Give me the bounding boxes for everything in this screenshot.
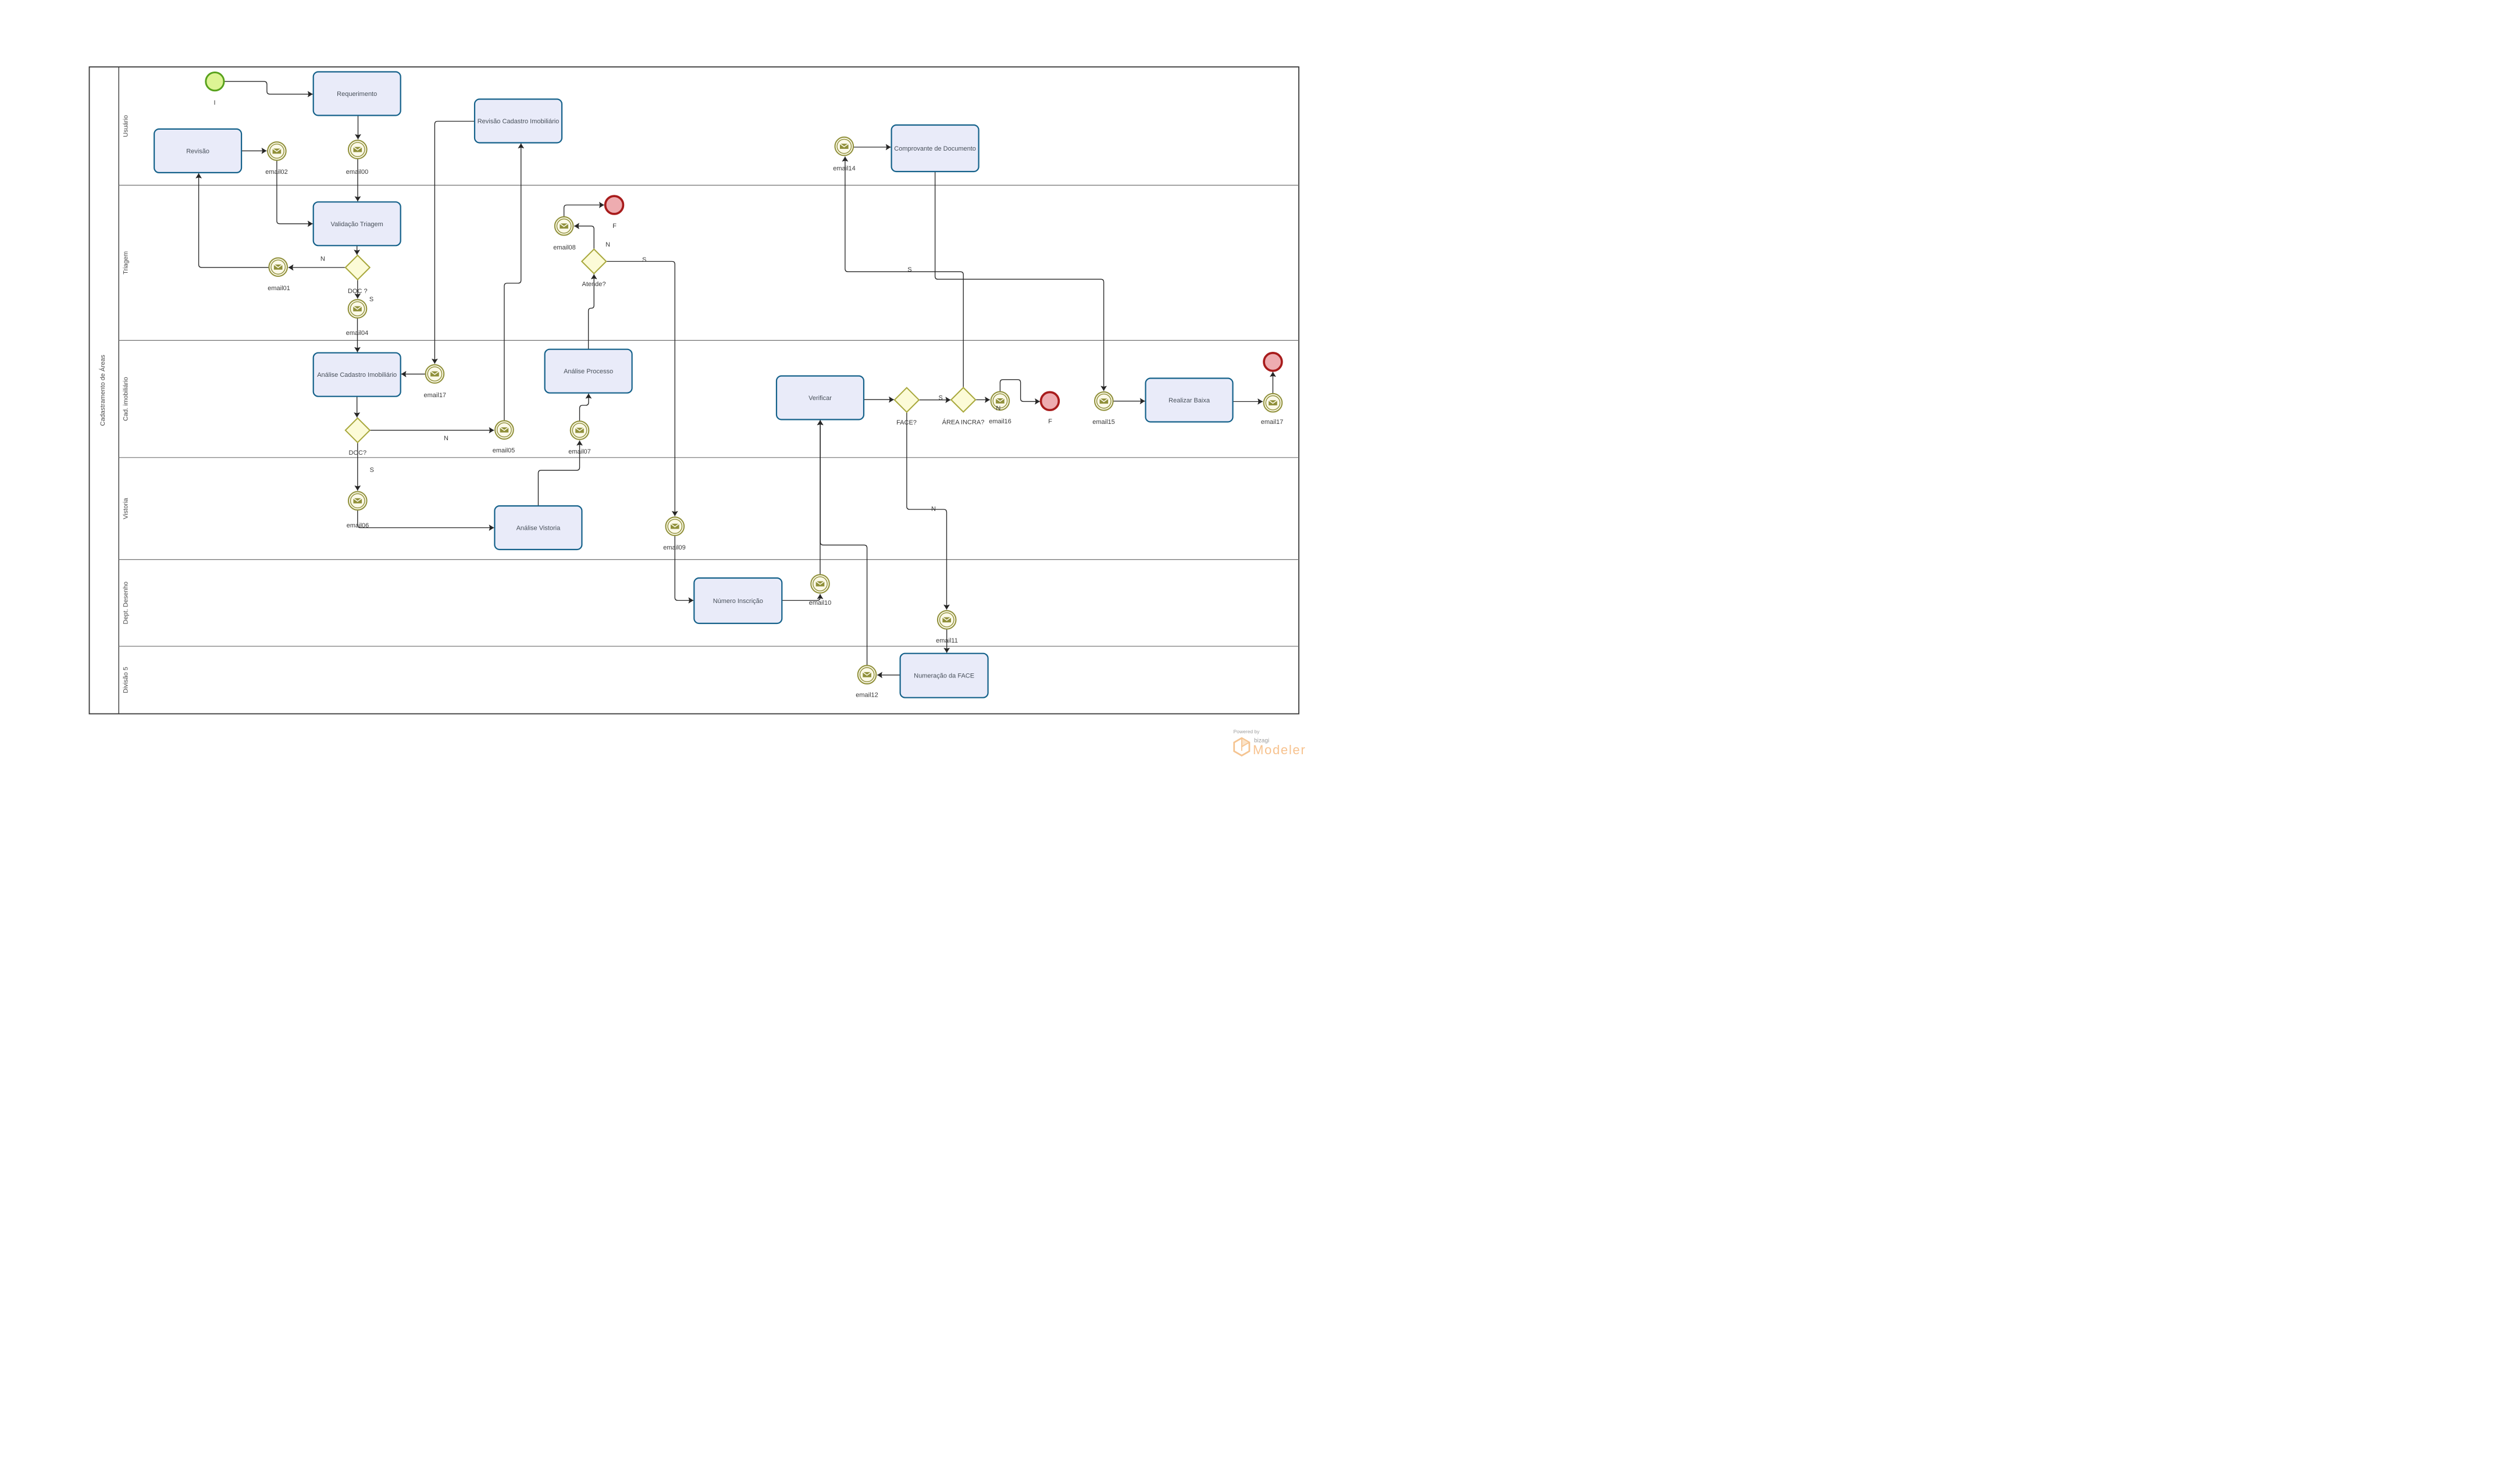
message event email01 [268,258,290,292]
svg-text:Dept. Desenho: Dept. Desenho [123,582,130,624]
svg-text:F: F [1048,418,1052,425]
wire gateway DOC1 N to email01 [289,267,346,268]
wire Revisão to email02 [241,150,266,151]
message event email14 [833,137,856,172]
wire email17b to end event [1272,372,1273,393]
svg-text:F: F [612,223,617,230]
Bizagi Modeler logo [1234,729,1306,757]
wire Análise Cadastro Imobiliário to gateway DOC2 [357,397,358,418]
message event email09 [663,517,686,551]
message event email11 [936,611,958,644]
svg-text:email04: email04 [346,330,369,337]
wire gateway AREAINCRA S to email14 [845,156,963,387]
svg-text:Requerimento: Requerimento [337,91,377,98]
svg-text:Revisão Cadastro Imobiliário: Revisão Cadastro Imobiliário [478,118,560,125]
svg-text:email02: email02 [265,169,288,176]
svg-text:Revisão: Revisão [186,148,209,155]
svg-text:Cadastramento de Áreas: Cadastramento de Áreas [99,355,106,426]
wire email11 to Numeração da FACE [946,629,948,652]
svg-text:DOC?: DOC? [349,450,367,456]
svg-text:email00: email00 [346,169,369,176]
svg-text:Cad. imobiliário: Cad. imobiliário [123,377,130,421]
gateway ÁREA INCRA? [942,388,985,426]
gateway Atende? [582,249,606,288]
svg-text:S: S [369,296,373,303]
task Numeração da FACE [900,654,988,698]
svg-text:S: S [939,395,943,402]
wire email12 to Verificar [820,420,867,665]
task Validação Triagem [314,202,401,245]
message event email10 [809,575,832,607]
svg-text:email16: email16 [989,418,1011,425]
wire email02 to Validação Triagem [277,160,313,223]
svg-text:email09: email09 [663,544,686,551]
wire gateway DOC2 N to email05 [370,430,494,431]
svg-text:N: N [320,256,325,263]
task Número Inscrição [694,578,782,623]
svg-text:Verificar: Verificar [808,395,832,402]
task Requerimento [314,72,401,116]
pool Cadastramento de Áreas [90,67,1299,714]
wire email07 to Análise Processo [580,394,589,421]
wire email04 to Análise Cadastro Imobiliário [357,319,358,352]
wire Análise Processo to gateway Atende [589,274,594,349]
svg-text:email10: email10 [809,600,832,607]
wire gateway AREAINCRA N to email16 [975,399,990,401]
wire gateway Atende N to email08 [574,226,594,249]
svg-text:Número Inscrição: Número Inscrição [713,598,763,605]
svg-text:Modeler: Modeler [1253,743,1306,757]
svg-text:Usuário: Usuário [123,115,130,137]
lane Triagem [119,185,1299,274]
task Análise Processo [545,349,632,393]
message event email17 [1261,394,1284,426]
task Revisão [154,129,241,173]
svg-text:Numeração da FACE: Numeração da FACE [914,673,974,680]
wire gateway DOC2 S to email06 [357,443,358,491]
wire Realizar Baixa to email17b [1233,401,1263,402]
svg-text:ÁREA INCRA?: ÁREA INCRA? [942,419,985,426]
end event F2 [1041,392,1059,425]
wire Numeração da FACE to email12 [877,675,900,676]
svg-text:Realizar Baixa: Realizar Baixa [1169,397,1210,404]
wire gateway FACE S to gateway AREAINCRA [919,399,950,401]
svg-text:DOC ?: DOC ? [348,288,368,295]
wire Comprovante de Documento to email15 [935,172,1104,391]
wire Revisão Cadastro Imobiliário to email17a [434,122,475,364]
message event email16 [989,392,1011,425]
gateway FACE? [895,388,919,426]
svg-text:Powered by: Powered by [1234,729,1260,734]
svg-text:Análise Processo: Análise Processo [564,368,613,375]
task Análise Cadastro Imobiliário [314,353,401,397]
wire email16 to end F2 [1000,380,1040,402]
svg-text:S: S [907,266,911,273]
start event I [206,73,224,106]
wire email08 to end F1 [564,205,604,217]
lane Cad. imobiliário [119,340,1299,421]
wire email01 to Revisão [199,173,269,267]
svg-text:email06: email06 [347,522,369,529]
lane Divisão 5 [119,646,1299,693]
gateway DOC ? [346,255,370,295]
wire Verificar to gateway FACE [864,399,894,400]
message event email08 [553,217,576,251]
wire email10 to Verificar [820,420,821,575]
message event email15 [1092,392,1115,426]
svg-text:email17: email17 [1261,419,1284,426]
wire Análise Vistoria to email07 [538,441,579,506]
svg-text:S: S [642,256,646,263]
lane Usuário [123,115,130,137]
wire email17a to Análise Cadastro Imobiliário [401,373,425,374]
svg-text:email11: email11 [936,637,958,644]
svg-text:N: N [996,405,1000,412]
svg-text:N: N [931,506,936,513]
message event email17 [424,365,447,399]
message event email04 [346,299,369,337]
task Análise Vistoria [494,506,582,550]
svg-text:email12: email12 [856,692,878,699]
svg-text:N: N [606,241,610,248]
wire gateway Atende S to email09 [606,262,675,516]
wire email15 to Realizar Baixa [1113,401,1145,402]
svg-text:Triagem: Triagem [123,251,130,274]
svg-text:email17: email17 [424,392,447,399]
task Verificar [777,376,864,420]
wire gateway DOC1 S to email04 [357,280,358,298]
task Comprovante de Documento [892,125,979,172]
gateway DOC? [346,418,370,456]
svg-text:Comprovante de Documento: Comprovante de Documento [894,145,976,152]
svg-text:I: I [213,99,215,106]
wire email05 to Revisão Cadastro Imobiliário [504,144,521,420]
svg-text:Análise Vistoria: Análise Vistoria [517,525,561,532]
svg-text:N: N [444,435,448,442]
svg-text:Análise Cadastro Imobiliário: Análise Cadastro Imobiliário [317,372,397,379]
wire email09 to Número Inscrição [675,536,693,601]
lane Dept. Desenho [119,559,1299,624]
svg-text:email14: email14 [833,165,856,172]
message event email02 [265,142,288,176]
svg-text:email01: email01 [268,285,290,292]
message event email05 [493,421,515,455]
lane Vistoria [119,458,1299,519]
wire Número Inscrição to email10 [782,594,820,601]
svg-text:Vistoria: Vistoria [123,497,130,519]
svg-text:S: S [370,466,374,473]
wire gateway FACE N to email11 [907,412,947,610]
wire email06 to Análise Vistoria [358,511,494,528]
message event email07 [568,421,591,455]
svg-text:Atende?: Atende? [582,281,606,288]
end event (top right) [1264,353,1282,371]
svg-text:email08: email08 [553,244,576,251]
wire Validação Triagem to gateway DOC1 [357,245,358,255]
end event F1 [606,196,624,230]
svg-text:email05: email05 [493,447,515,454]
wire email14 to Comprovante de Documento [854,147,891,148]
task Revisão Cadastro Imobiliário [475,99,562,143]
svg-text:email15: email15 [1092,419,1115,426]
wire start I to Requerimento [225,81,313,94]
svg-text:Validação Triagem: Validação Triagem [331,221,383,228]
message event email00 [346,140,369,176]
message event email06 [347,491,369,529]
svg-text:FACE?: FACE? [896,419,917,426]
task Realizar Baixa [1146,379,1233,422]
svg-text:Divisão 5: Divisão 5 [123,667,130,693]
wire Requerimento to email00 [358,116,359,140]
message event email12 [856,665,878,698]
wire email00 to Validação Triagem [357,159,358,202]
svg-text:email07: email07 [568,448,591,455]
